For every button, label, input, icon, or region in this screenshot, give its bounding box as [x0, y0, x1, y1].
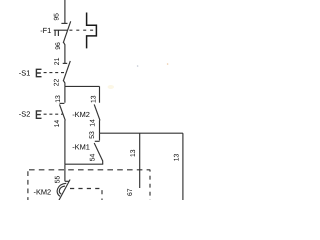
boundary dashed fence right leg: [149, 170, 151, 200]
svg-text:-S1: -S1: [19, 69, 31, 78]
svg-text:13: 13: [55, 95, 62, 103]
node 13 label KM2: [90, 95, 97, 103]
switch S2 NO pushbutton contact: [60, 103, 66, 164]
node 67 label: [127, 188, 134, 196]
svg-text:-F1: -F1: [40, 26, 51, 35]
node 95 label: [54, 13, 61, 21]
svg-text:-S2: -S2: [19, 109, 31, 118]
wire: dash-dot link S2: [44, 113, 63, 115]
wire: KM2 branch vertical top: [99, 86, 101, 102]
wire: thermal actuator bar of F1: [54, 30, 68, 36]
wire: spine junction to S2: [64, 86, 66, 102]
node 54 label: [90, 154, 97, 162]
svg-text:53: 53: [89, 131, 96, 139]
node 13 label left branch: [55, 95, 62, 103]
contact KM2 time-delayed NC: [57, 164, 70, 200]
label -F1: [40, 26, 51, 35]
svg-text:14: 14: [54, 120, 61, 128]
pushbutton actuator E of S2: [36, 110, 42, 119]
contact KM1 NO auxiliary: [94, 141, 103, 164]
svg-text:13: 13: [130, 149, 137, 157]
node 55 label: [54, 176, 61, 184]
wire: dash-dot link S1: [44, 72, 67, 74]
svg-text:14: 14: [90, 119, 97, 127]
wire: dash-dot mechanism link bottom: [70, 189, 102, 201]
wire: junction horizontal to KM2 branch: [65, 85, 100, 87]
label -KM2 bottom: [34, 187, 52, 196]
wire: horizontal bus: [100, 132, 183, 134]
svg-text:-KM1: -KM1: [72, 143, 90, 152]
label -KM1: [72, 143, 90, 152]
svg-text:22: 22: [53, 79, 60, 87]
svg-text:67: 67: [127, 188, 134, 196]
node 53 label: [89, 131, 96, 139]
boundary dashed fence left leg: [27, 171, 29, 200]
svg-text:13: 13: [173, 154, 180, 162]
svg-text:21: 21: [54, 57, 61, 65]
svg-text:96: 96: [55, 42, 62, 50]
node 13 label mid: [130, 149, 137, 157]
wire: dashed actuator link F1: [69, 29, 95, 31]
contact KM2 NO auxiliary: [94, 104, 100, 133]
switch S1 NC pushbutton contact: [63, 61, 71, 87]
node 14 label KM2: [90, 119, 97, 127]
node 14 label left branch: [54, 120, 61, 128]
node 13 label right: [173, 154, 180, 162]
svg-text:95: 95: [54, 13, 61, 21]
wire: right vertical net 13: [182, 133, 184, 200]
wire: bottom rail: [65, 163, 103, 165]
pushbutton actuator E of S1: [36, 69, 42, 78]
wire: KM1 top terminal: [99, 133, 101, 140]
resistor F1 thermal NC contact: [61, 21, 70, 63]
trip element of F1: [87, 13, 97, 49]
boundary dashed fence top: [29, 169, 150, 171]
svg-text:-KM2: -KM2: [34, 187, 52, 196]
label -KM2: [72, 110, 90, 119]
wire: top spine above F1: [64, 0, 66, 23]
svg-text:54: 54: [90, 154, 97, 162]
wire: vertical net 13/67: [139, 133, 141, 188]
node 22 label: [53, 79, 60, 87]
svg-text:13: 13: [90, 95, 97, 103]
label -S2: [19, 109, 31, 118]
node 96 label: [55, 42, 62, 50]
node 21 label: [54, 57, 61, 65]
svg-text:-KM2: -KM2: [72, 110, 90, 119]
svg-text:55: 55: [54, 176, 61, 184]
label -S1: [19, 69, 31, 78]
